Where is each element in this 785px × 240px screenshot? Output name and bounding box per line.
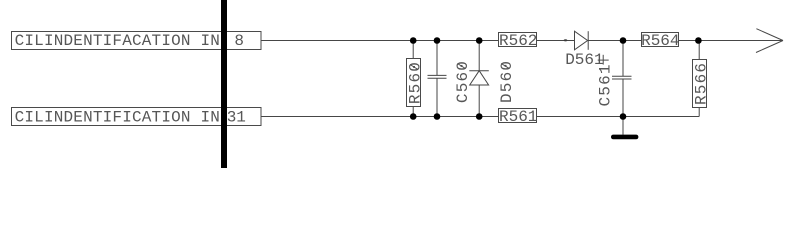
svg-text:R560: R560	[407, 61, 425, 104]
svg-text:R562: R562	[499, 32, 537, 50]
svg-text:31: 31	[227, 108, 246, 126]
svg-text:CILINDENTIFACATION IN: CILINDENTIFACATION IN	[15, 32, 220, 50]
svg-text:CILINDENTIFICATION IN: CILINDENTIFICATION IN	[15, 108, 220, 126]
svg-text:D560: D560	[498, 60, 516, 103]
svg-text:R566: R566	[692, 62, 710, 105]
svg-text:C560: C560	[454, 60, 472, 103]
svg-text:8: 8	[234, 32, 244, 50]
svg-text:R564: R564	[641, 32, 679, 50]
svg-text:C561: C561	[596, 63, 614, 106]
svg-text:R561: R561	[499, 108, 537, 126]
